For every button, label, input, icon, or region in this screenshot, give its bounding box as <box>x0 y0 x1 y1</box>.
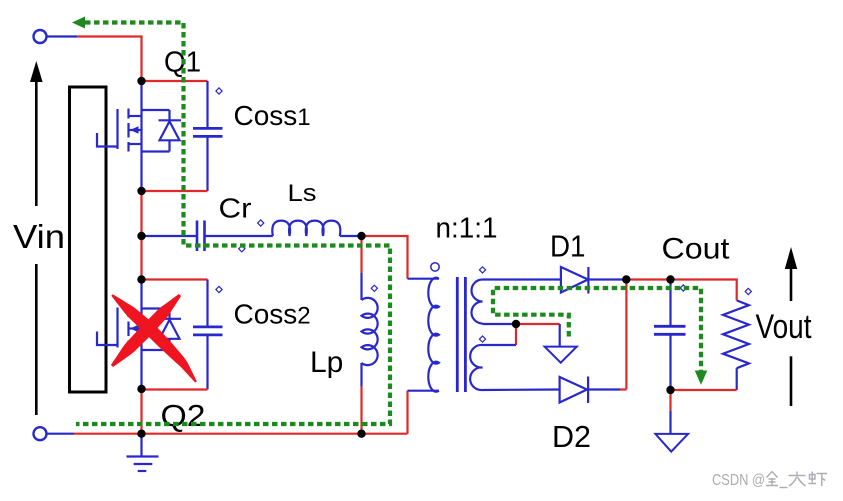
ground center tap triangle <box>545 347 577 363</box>
pin diamond secondary top <box>479 267 485 273</box>
inductor Lp <box>362 273 378 387</box>
terminal bottom-left <box>34 427 47 440</box>
arrow secondary loop <box>695 371 708 385</box>
svg-text:Cr: Cr <box>219 193 252 224</box>
primary phase circle marker <box>431 263 439 271</box>
svg-text:n:1:1: n:1:1 <box>436 213 498 245</box>
ground (main, below rail) <box>127 434 159 471</box>
inductor Ls <box>272 221 340 236</box>
node Ls Lp junction <box>357 232 365 240</box>
svg-text:Ls: Ls <box>288 180 317 207</box>
diode D1 <box>483 267 627 294</box>
arrow primary loop <box>72 17 85 29</box>
wire output bottom red <box>671 389 737 391</box>
wire top rail blue <box>47 35 78 37</box>
wire Q2 source to bottom rail red <box>140 389 142 434</box>
pin diamond Lp <box>371 285 377 291</box>
wire D2 to riser red <box>620 388 626 390</box>
Vin arrow <box>35 80 38 415</box>
wire mid column red (Q1 source to Q2 drain) <box>140 191 142 280</box>
wire bottom rail red <box>74 433 408 435</box>
wire node to Lp red <box>360 236 362 273</box>
wire top rail red <box>77 37 142 82</box>
capacitor Coss2 <box>142 280 223 390</box>
transformer secondary top winding <box>472 280 483 324</box>
transformer core <box>456 277 459 392</box>
wire D1 node to Cout node red <box>626 278 670 280</box>
wire D1 node down to D2 red <box>625 280 627 390</box>
svg-text:D2: D2 <box>552 419 591 454</box>
capacitor Coss1 <box>142 81 223 191</box>
wire node to transformer primary red <box>362 236 408 279</box>
pin diamond secondary bottom <box>479 336 485 342</box>
pin diamond resistor <box>745 288 751 294</box>
transistor Q2 <box>97 280 181 390</box>
svg-text:CSDN @: CSDN @ <box>712 472 765 489</box>
wire bottom rail blue <box>47 433 75 435</box>
svg-text:Q2: Q2 <box>161 398 206 433</box>
svg-text:Vin: Vin <box>13 218 65 255</box>
svg-text:Vout: Vout <box>756 308 812 346</box>
wire Cout node to ground red <box>669 390 671 411</box>
pin diamond Cr right <box>239 246 245 252</box>
node Cr tap <box>137 232 145 240</box>
wire primary bottom to rail red <box>406 391 408 434</box>
node center tap <box>512 320 520 328</box>
resistor Vout load <box>723 300 749 390</box>
wire Ls to node <box>340 235 362 237</box>
Vout arrow <box>790 268 793 406</box>
svg-text:Coss1: Coss1 <box>234 100 311 131</box>
wire Cout node to resistor red <box>671 280 737 301</box>
Vin source bar <box>70 87 107 392</box>
transformer secondary bottom winding <box>470 345 482 390</box>
diode D2 <box>483 377 621 404</box>
red X over Q2 <box>111 294 197 383</box>
node bottom rail Lp <box>357 430 365 438</box>
watermark <box>712 472 827 490</box>
transformer primary winding <box>408 278 439 392</box>
node Q2 source <box>137 385 145 393</box>
svg-text:D1: D1 <box>550 229 586 264</box>
current loop secondary green <box>493 288 701 372</box>
node Cout top <box>666 275 674 283</box>
transistor Q1 <box>97 81 181 191</box>
svg-text:Cout: Cout <box>662 233 730 266</box>
node Q1 drain <box>137 77 145 85</box>
center tap wiring <box>516 323 560 325</box>
wire Lp to bottom rail red <box>360 387 362 434</box>
svg-text:Lp: Lp <box>310 346 343 379</box>
pin diamond Ls left <box>258 220 264 226</box>
wire to ground blue <box>669 411 671 434</box>
svg-text:Coss2: Coss2 <box>234 299 311 330</box>
capacitor Cr <box>142 221 273 252</box>
node Q2 drain <box>137 275 145 283</box>
ground output triangle <box>655 434 688 452</box>
node Q1 source <box>137 187 145 195</box>
current loop primary green <box>76 23 390 425</box>
node bottom rail left <box>137 430 145 438</box>
node D1 cathode <box>622 275 630 283</box>
node Cout bottom <box>666 386 674 394</box>
capacitor Cout <box>654 280 686 391</box>
terminal top-left <box>34 30 47 43</box>
secondary top bottom lead <box>483 323 517 325</box>
